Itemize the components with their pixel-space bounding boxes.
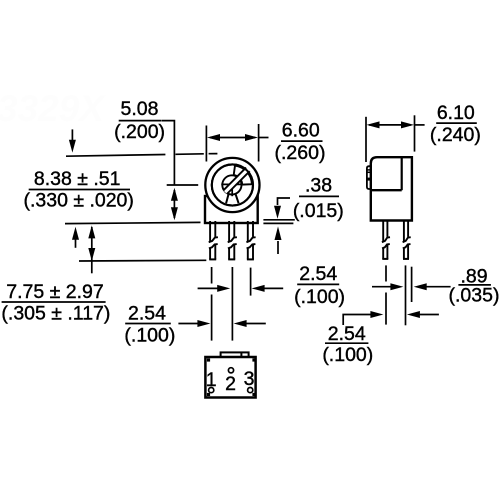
svg-text:2.54: 2.54 bbox=[128, 303, 166, 325]
front view body bbox=[205, 158, 260, 223]
svg-text:(.260): (.260) bbox=[275, 142, 326, 164]
svg-text:1: 1 bbox=[206, 369, 217, 391]
dimension 2.54 (.100) pins 1-2 bbox=[124, 303, 265, 347]
svg-text:6.10: 6.10 bbox=[437, 102, 475, 124]
dimension 6.60 (.260) bbox=[206, 120, 325, 165]
front pin 1 bbox=[209, 221, 218, 259]
dimension .38 (.015) standoff bbox=[263, 175, 343, 255]
front pin 3 bbox=[246, 221, 255, 259]
front pin 2 bbox=[228, 221, 237, 259]
screw center reference line bbox=[167, 184, 199, 186]
side screw head bbox=[367, 166, 371, 189]
side pin A bbox=[382, 221, 390, 259]
svg-text:6.60: 6.60 bbox=[282, 120, 320, 142]
svg-text:2.54: 2.54 bbox=[299, 263, 337, 285]
dimension 6.10 (.240) bbox=[366, 102, 481, 162]
svg-text:(.100): (.100) bbox=[294, 286, 345, 308]
svg-text:(.305 ± .117): (.305 ± .117) bbox=[1, 303, 110, 325]
svg-text:3329X: 3329X bbox=[0, 88, 106, 129]
svg-text:7.75 ± 2.97: 7.75 ± 2.97 bbox=[6, 281, 103, 303]
rotor wedge bbox=[234, 166, 252, 185]
front pin extension lines bbox=[212, 267, 251, 341]
pin tip reference line bbox=[79, 259, 206, 262]
svg-text:(.015): (.015) bbox=[293, 200, 344, 222]
front ring redraw bbox=[212, 164, 253, 205]
dimension 2.54 (.100) pins 2-3 bbox=[198, 263, 345, 308]
bottom view body bbox=[205, 352, 255, 397]
side pin B bbox=[403, 221, 411, 259]
svg-text:2: 2 bbox=[225, 373, 236, 395]
dimension 2.54 (.100) side pins bbox=[322, 311, 439, 366]
seating plane reference line bbox=[65, 222, 201, 223]
dimension .89 (.035) pin width bbox=[372, 265, 499, 306]
svg-text:.38: .38 bbox=[305, 175, 332, 197]
svg-text:(.035): (.035) bbox=[449, 285, 500, 307]
rotor slot bbox=[223, 168, 249, 194]
svg-text:3: 3 bbox=[244, 368, 255, 390]
svg-text:(.240): (.240) bbox=[430, 124, 481, 146]
dimension 7.75 ± 2.97 (.305 ± .117) bbox=[1, 225, 110, 324]
svg-text:(.100): (.100) bbox=[124, 325, 175, 347]
bottom view pin pads bbox=[209, 368, 253, 393]
front rotor bbox=[221, 175, 243, 203]
bottom view corner keys bbox=[207, 358, 256, 396]
side pin extension lines bbox=[386, 265, 412, 325]
svg-text:(.330 ± .020): (.330 ± .020) bbox=[23, 190, 133, 212]
svg-text:2.54: 2.54 bbox=[328, 323, 366, 345]
dimension 8.38 ± .51 (.330 ± .020) bbox=[23, 129, 133, 247]
svg-text:8.38 ± .51: 8.38 ± .51 bbox=[34, 168, 121, 190]
side view body bbox=[371, 157, 412, 220]
dimension 5.08 (.200) bbox=[114, 98, 178, 220]
svg-text:(.100): (.100) bbox=[322, 344, 373, 366]
top-of-body reference line bbox=[66, 155, 165, 157]
svg-text:5.08: 5.08 bbox=[121, 98, 159, 120]
svg-text:(.200): (.200) bbox=[114, 121, 165, 143]
